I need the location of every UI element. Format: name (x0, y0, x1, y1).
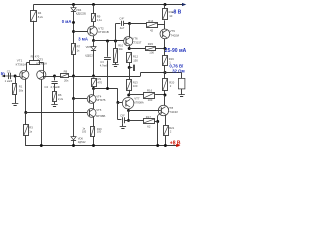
resistor R16b (91, 127, 95, 137)
wire VD4 down (73, 12, 75, 77)
capacitor C1 (9, 73, 11, 79)
transistor VT3 (37, 70, 46, 79)
svg-text:VD5: VD5 (86, 45, 92, 49)
wire VT8 base (129, 110, 161, 112)
label R17 (146, 115, 152, 128)
svg-text:150: 150 (133, 58, 138, 62)
node R10 branch (114, 40, 117, 43)
wire VT8 emitter lead (158, 113, 161, 122)
node VT2 base branch (72, 30, 75, 33)
wire R19 to node (164, 65, 166, 72)
wire R13 to VT7 (129, 90, 131, 95)
wire R5 right lead to VT3 emitter (39, 63, 44, 71)
node VT2 collector (92, 39, 95, 42)
speaker BA1 (178, 78, 185, 89)
node R16b at rail (92, 144, 95, 147)
wire C4 left (116, 23, 121, 25)
svg-text:470: 470 (98, 81, 103, 85)
resistor R7 (72, 44, 76, 55)
wire C4 node to R14 (130, 23, 147, 25)
label VD4 (76, 8, 86, 16)
wire R15 to output column (155, 48, 165, 50)
label 0 mA (62, 19, 72, 24)
label R15 (148, 42, 155, 55)
node C8 R17 junction (127, 119, 130, 122)
label 0.76V (169, 64, 184, 69)
wire R12 bottom (129, 63, 131, 68)
wire VT2 collector bus (94, 40, 124, 42)
wire VT7 emitter low (128, 111, 130, 121)
svg-text:КТ808А: КТ808А (134, 101, 144, 105)
label C4 value (120, 26, 125, 30)
label C2 (44, 85, 60, 89)
svg-text:100: 100 (148, 98, 153, 102)
node VT4 base branch (72, 97, 75, 100)
ground under speaker (178, 95, 184, 97)
label VT1 (16, 59, 27, 67)
label R6 (58, 93, 64, 101)
wire input node to R1 (15, 76, 17, 83)
svg-text:10: 10 (169, 14, 173, 18)
input terminal arrow (1, 75, 15, 78)
label 32 Ohm (172, 69, 185, 74)
label C1 (7, 70, 11, 74)
label VT8 (168, 106, 178, 114)
resistor R1 (13, 84, 17, 95)
svg-text:62: 62 (147, 124, 151, 128)
resistor R6 (53, 92, 57, 102)
label 3 mA (78, 37, 88, 42)
wire R17 left (129, 120, 144, 122)
node VT3 base junction (53, 75, 56, 78)
node VT7 emitter VT8 base (127, 109, 130, 112)
wire R18 to VT9 (164, 20, 166, 29)
power +8V arrow (176, 144, 180, 147)
wire C3 column upper (107, 41, 109, 57)
node output at column (164, 71, 167, 74)
wire to VT4 base (74, 98, 90, 100)
wire R8 to main column (69, 76, 74, 78)
power -8V arrow (182, 3, 186, 6)
label C3 (100, 60, 108, 67)
svg-text:МП38Б: МП38Б (96, 114, 105, 118)
node rail R7b (92, 3, 95, 6)
resistor R4 (31, 11, 37, 22)
svg-text:R14: R14 (148, 19, 154, 23)
transistor VT7 (122, 98, 133, 109)
wire output to speaker (165, 73, 182, 79)
wire node to R8 (55, 76, 62, 78)
svg-text:4н7: 4н7 (120, 26, 125, 30)
label R1 (19, 85, 24, 93)
svg-text:R16: R16 (147, 89, 153, 93)
svg-text:C2: C2 (44, 85, 48, 89)
node input junction (14, 75, 17, 78)
label VT2 (98, 26, 109, 34)
svg-text:R19: R19 (169, 57, 174, 61)
resistor R20 (163, 79, 168, 91)
capacitor C3 (104, 58, 111, 60)
wire R5 left lead to VT1 emitter (27, 63, 30, 71)
wire VT3 base to node (44, 76, 55, 78)
wire VT6 emitter (129, 46, 131, 49)
label R19 (169, 57, 174, 65)
wire speaker to ground (181, 89, 183, 95)
transistor VT8 (158, 105, 168, 115)
svg-text:VT9: VT9 (170, 29, 176, 33)
diode VD6 (71, 137, 76, 141)
label VT3 (36, 58, 47, 66)
resistor R19 (163, 56, 168, 66)
wire rail to R18 (164, 5, 166, 10)
resistor R5 (30, 61, 40, 65)
node VT9 emitter (164, 47, 167, 50)
label R9a (97, 14, 103, 22)
svg-text:R15: R15 (148, 42, 154, 46)
svg-text:1 мкФ: 1 мкФ (5, 79, 13, 83)
wire VT6 collector up (129, 24, 131, 37)
wire R9b bottom (93, 86, 95, 88)
svg-text:КД522: КД522 (85, 53, 93, 57)
resistor R18 (163, 9, 168, 20)
wire R4 to R5 (33, 21, 35, 61)
label +8V (170, 141, 181, 147)
node R20 R16 junction (164, 94, 167, 97)
svg-text:R20: R20 (169, 80, 174, 84)
svg-text:25-90 мА: 25-90 мА (165, 48, 187, 54)
transistor VT4 (87, 95, 96, 104)
node VD5 output wire (92, 75, 95, 78)
capacitor C2 (52, 82, 58, 84)
label R14 (148, 19, 154, 32)
wire rail to R7b (93, 5, 95, 14)
svg-text:КТ361А: КТ361А (16, 62, 27, 66)
wire R6 to ground (54, 102, 56, 105)
label R16 (147, 89, 153, 102)
label VD5 (85, 45, 93, 57)
resistor R10 (114, 49, 118, 63)
wire node to C2 (54, 76, 56, 80)
wire C8 to node (124, 120, 128, 122)
svg-text:R9: R9 (98, 77, 102, 81)
svg-text:ГТ404И: ГТ404И (168, 110, 178, 114)
label In (1, 71, 5, 77)
node C4 VT6 junction (128, 22, 131, 25)
label stray (82, 127, 87, 133)
wire VT4 emitter to VT5 (93, 103, 95, 109)
wire VT5 emitter down (93, 117, 95, 127)
node R12 C5 junction (128, 66, 131, 69)
node VT7 base (116, 101, 119, 104)
capacitor C5 (129, 65, 134, 71)
resistor R13 (127, 80, 132, 91)
wire R17 right (154, 121, 157, 123)
label R10 (118, 44, 123, 51)
wire R10 to ground (115, 62, 117, 64)
svg-text:R8: R8 (64, 70, 68, 74)
label VT7 (134, 96, 144, 104)
resistor R9b 470 (92, 79, 97, 87)
wire VT9 emitter (164, 39, 166, 49)
resistor R16 (144, 93, 155, 99)
svg-text:VT5: VT5 (96, 108, 102, 112)
svg-text:КТ315Г: КТ315Г (132, 40, 142, 44)
label VT9 (169, 29, 179, 37)
wire C3 column lower (107, 60, 109, 88)
wire R9a to VT2 (93, 22, 95, 27)
node VT7 collector junction (127, 94, 130, 97)
svg-text:R13: R13 (133, 80, 138, 84)
svg-text:КТ361А: КТ361А (36, 61, 47, 65)
node VT8 emitter at rail (156, 144, 159, 147)
transistor VT5 (87, 109, 96, 118)
wire VT7 base col to C8 (118, 103, 122, 120)
wire to R19 (164, 49, 166, 56)
svg-text:VT7: VT7 (134, 96, 140, 100)
wire rail to VD4 (73, 5, 75, 8)
node C3 branch (106, 40, 109, 43)
wire bottom supply rail +8V (25, 145, 177, 147)
svg-text:3 мА: 3 мА (78, 37, 88, 42)
resistor R3 (24, 125, 29, 136)
wire input node to VT1 base (15, 76, 22, 78)
resistor R9a (92, 14, 96, 22)
wire node to R20 (164, 73, 166, 79)
svg-text:1,1к: 1,1к (97, 18, 103, 22)
svg-text:ГТ402И: ГТ402И (169, 33, 179, 37)
wire top supply rail -8V (34, 4, 184, 6)
diode VD5 (91, 47, 96, 51)
label VT5 (96, 108, 105, 118)
label VT4 (96, 94, 105, 102)
label R20 (169, 80, 174, 88)
svg-text:32 Ом: 32 Ом (172, 69, 185, 74)
node VT6 emitter (128, 47, 131, 50)
label R21 (169, 126, 175, 134)
wire VT7 node to R16 (129, 94, 144, 96)
wire R10 top (115, 24, 117, 49)
label C8 (120, 113, 126, 117)
label VT6 (132, 37, 142, 45)
wire VT7 base (118, 102, 123, 104)
label R12 (133, 55, 139, 63)
wire R12 node to R13 (129, 68, 131, 80)
svg-text:42: 42 (150, 28, 154, 32)
ground under C8 (120, 127, 126, 129)
wire VD6 to rail (73, 140, 75, 145)
wire down to VT4 (93, 89, 95, 96)
node C3 lower junction (106, 87, 109, 90)
wire output feedback (74, 73, 166, 77)
wire R16b to rail (93, 137, 95, 146)
wire R21 to rail (165, 135, 167, 145)
wire VT3 collector to bottom rail (41, 79, 43, 145)
transistor VT9 (160, 29, 170, 39)
wire VD5 down (93, 50, 95, 76)
label -8V (172, 9, 182, 15)
wire rail to R4 (33, 5, 35, 11)
label R5 470 (31, 54, 40, 58)
svg-text:100: 100 (133, 84, 138, 88)
svg-text:КД522: КД522 (78, 140, 86, 144)
label R18 (169, 10, 175, 18)
wire VT6 emitter to R15 (129, 48, 145, 50)
label R16b (97, 127, 102, 134)
diode VD4 (71, 8, 76, 12)
resistor R12 (127, 53, 132, 63)
wire VT2 node to VD5 (93, 41, 95, 47)
transistor VT2 (88, 26, 98, 36)
label R3 (29, 126, 33, 134)
wire VT7 emitter (128, 109, 130, 111)
resistor R15 (146, 47, 156, 51)
ground under R6 (51, 105, 57, 107)
svg-text:4,7мкФ: 4,7мкФ (50, 85, 60, 89)
wire VT4 collector bus (94, 88, 118, 90)
node VD6 at rail (72, 144, 75, 147)
wire C8 ground stub (122, 123, 124, 126)
label R8 (64, 70, 70, 83)
svg-text:100: 100 (97, 129, 102, 133)
svg-text:2,2к: 2,2к (58, 97, 64, 101)
svg-text:100: 100 (82, 131, 87, 134)
node rail VD4 (72, 3, 75, 6)
label R7 (77, 45, 81, 53)
wire bus corner to VT7 base (117, 89, 119, 103)
node VT1 collector to VT5 base (24, 111, 27, 114)
node rail R18 (164, 3, 167, 6)
wire VT1 collector to R3 (25, 113, 27, 125)
resistor R8 (61, 74, 69, 78)
node R9b VT4 junction (92, 87, 95, 90)
svg-text:КД522Б: КД522Б (76, 12, 86, 16)
wire VT8 collector down (165, 115, 167, 126)
svg-text:C1: C1 (7, 70, 11, 74)
svg-text:R21: R21 (169, 126, 175, 130)
resistor R17 (144, 119, 155, 124)
wire R3 to bottom rail (24, 135, 27, 145)
wire to VT2 base (74, 31, 91, 33)
node VT8 emitter R17 (156, 120, 159, 123)
svg-text:4,7мкФ: 4,7мкФ (100, 64, 108, 67)
node main column output wire (72, 75, 75, 78)
label C1 value 1uF (5, 79, 13, 83)
svg-text:50к: 50к (19, 89, 24, 93)
capacitor C8 (123, 117, 125, 123)
svg-text:100: 100 (149, 51, 154, 55)
node R21 at rail (164, 144, 167, 147)
ground under R1 (12, 104, 18, 106)
svg-text:КТ361В: КТ361В (98, 30, 109, 34)
wire VT8 emitter to rail (157, 122, 159, 146)
wire main column low (73, 99, 75, 137)
label R13 (133, 80, 138, 88)
label C4 (119, 17, 125, 21)
label R9b (98, 77, 103, 84)
wire node to VT8 (164, 95, 166, 105)
wire main column mid (73, 76, 75, 99)
wire VT2 collector (93, 36, 95, 41)
resistor R14 (147, 23, 158, 28)
transistor VT1 (20, 70, 29, 79)
transistor VT6 (124, 37, 133, 46)
svg-text:VD6: VD6 (78, 137, 84, 141)
wire VT5 base line (26, 112, 90, 114)
wire VT1 collector down (25, 79, 27, 112)
resistor R21 (164, 126, 169, 136)
wire C4 right (124, 23, 130, 25)
svg-text:МП37Б: МП37Б (96, 98, 105, 102)
label 25-90 mA (165, 48, 187, 54)
label VD6 (78, 137, 86, 144)
svg-text:8,2к: 8,2к (38, 15, 44, 19)
ground under R10 (112, 65, 118, 67)
wire R16 to output column (155, 94, 165, 96)
wire R1 to ground (15, 95, 17, 104)
wire R20 to node (164, 90, 166, 95)
node VT3 collector at rail (40, 144, 43, 147)
label R4 (38, 11, 44, 19)
wire C2 to R6 (54, 83, 56, 91)
capacitor C4 (122, 21, 124, 26)
node measurement point 0mA (72, 21, 75, 24)
svg-text:R17: R17 (146, 115, 152, 119)
svg-text:0 мА: 0 мА (62, 19, 72, 24)
svg-text:+8 В: +8 В (170, 141, 181, 147)
wire R14 right lead (157, 24, 165, 26)
